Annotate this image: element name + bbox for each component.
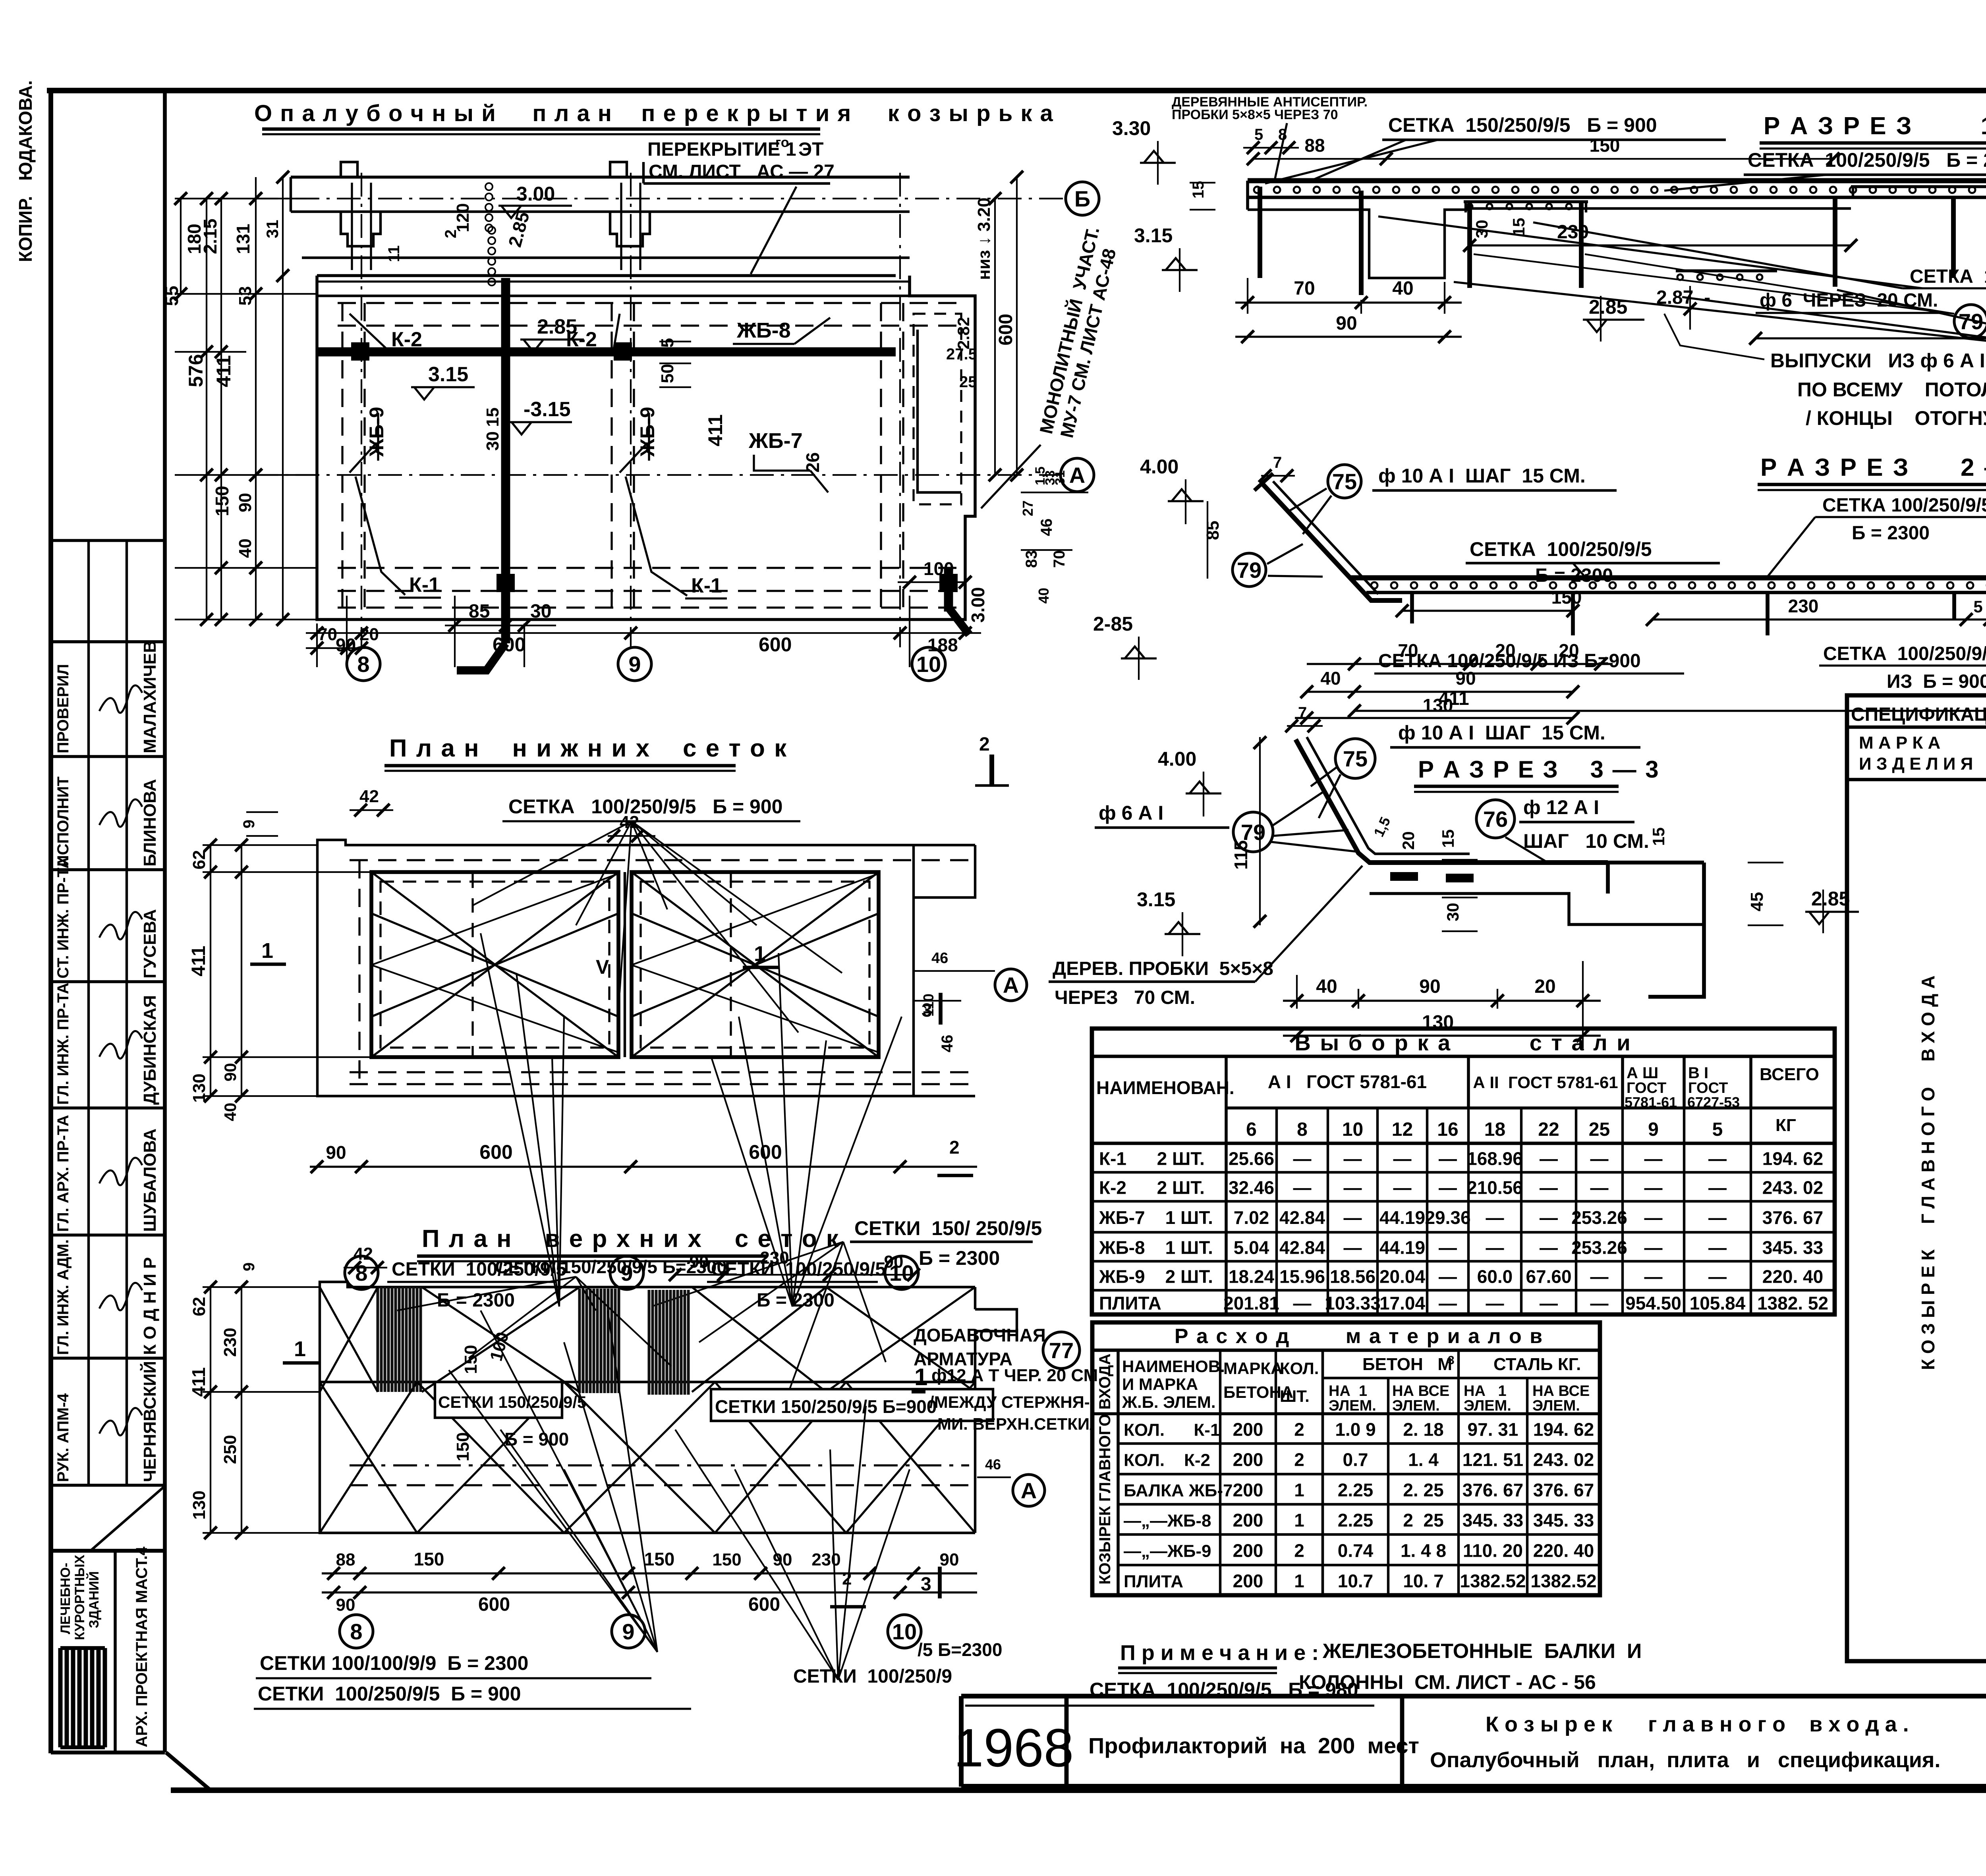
svg-text:2.85: 2.85: [1811, 888, 1850, 910]
grid axis A horizontal: [254, 474, 1059, 476]
svg-text:НА ВСЕ: НА ВСЕ: [1532, 1383, 1590, 1399]
sec2 dims 40 90: [1307, 691, 1573, 693]
svg-text:Б = 900: Б = 900: [504, 1429, 569, 1449]
bottom small dims 70 20: [316, 623, 318, 667]
svg-text:120: 120: [453, 203, 473, 232]
svg-text:ЭЛЕМ.: ЭЛЕМ.: [1392, 1397, 1440, 1414]
upper right step outline: [975, 1309, 1017, 1533]
svg-text:18.56: 18.56: [1330, 1266, 1376, 1287]
svg-text:/5 Б=2300: /5 Б=2300: [918, 1639, 1002, 1660]
svg-text:70: 70: [1051, 550, 1068, 568]
svg-text:А: А: [1021, 1478, 1037, 1503]
svg-text:194. 62: 194. 62: [1762, 1148, 1823, 1169]
svg-text:22: 22: [1538, 1119, 1559, 1140]
grid axis B horizontal: [254, 198, 1065, 199]
svg-text:42.84: 42.84: [1279, 1207, 1325, 1228]
svg-text:46: 46: [931, 950, 948, 967]
sidebar empty signature band: [51, 539, 165, 542]
floor band lower edge: [317, 274, 896, 277]
slab soffit ledge with notch: [1248, 210, 1468, 278]
svg-text:7: 7: [1273, 454, 1282, 471]
svg-text:1: 1: [914, 1364, 927, 1390]
svg-text:10: 10: [892, 1619, 917, 1644]
svg-text:8: 8: [1297, 1119, 1308, 1140]
svg-text:90: 90: [690, 1252, 709, 1272]
svg-text:345. 33: 345. 33: [1762, 1237, 1823, 1258]
svg-text:121. 51: 121. 51: [1462, 1449, 1523, 1470]
svg-text:—: —: [1540, 1148, 1558, 1169]
svg-text:—: —: [1486, 1207, 1504, 1228]
beam ZhB-8 dashed band top: [338, 302, 965, 304]
svg-text:—: —: [1344, 1207, 1362, 1228]
upper plan left ties: [203, 1286, 320, 1288]
svg-text:8: 8: [357, 652, 369, 677]
svg-text:КОПИР. ЮДАКОВА.: КОПИР. ЮДАКОВА.: [15, 80, 36, 262]
svg-text:—: —: [1590, 1266, 1609, 1287]
grid bubble 10: [912, 647, 945, 681]
svg-text:Р а с х о д м а т е р и: Р а с х о д м а т е р и а л о в: [1175, 1325, 1544, 1348]
svg-text:НА ВСЕ: НА ВСЕ: [1392, 1383, 1449, 1399]
svg-text:600: 600: [995, 314, 1016, 345]
svg-text:954.50: 954.50: [1625, 1293, 1681, 1314]
svg-text:600: 600: [759, 633, 792, 656]
svg-text:МАРКА: МАРКА: [1223, 1359, 1283, 1378]
svg-text:30: 30: [1443, 903, 1462, 921]
svg-text:—: —: [1439, 1148, 1457, 1169]
left horizontal tie lines: [175, 198, 318, 199]
svg-text:150: 150: [414, 1549, 444, 1569]
svg-text:СЕТКА 100/250/9/5: СЕТКА 100/250/9/5: [1822, 495, 1986, 516]
svg-text:—: —: [1590, 1177, 1609, 1198]
svg-text:1: 1: [1294, 1510, 1304, 1531]
grid axis 9: [630, 173, 632, 647]
dim 88 and 150 above section: [1253, 158, 1835, 160]
svg-text:150: 150: [1551, 587, 1582, 608]
svg-text:3.15: 3.15: [1137, 888, 1175, 911]
bubble 79 section1: [1474, 254, 1954, 314]
svg-text:ЛЕЧЕБНО-: ЛЕЧЕБНО-: [58, 1563, 73, 1634]
svg-text:—: —: [1486, 1293, 1504, 1314]
svg-text:СЕТКА 100/250/9/5: СЕТКА 100/250/9/5: [1910, 266, 1986, 287]
raskhod header: [1219, 1350, 1221, 1595]
svg-text:СЕТКИ 100/250/9: СЕТКИ 100/250/9: [793, 1666, 952, 1687]
svg-text:МАЛАХИЧЕВ: МАЛАХИЧЕВ: [140, 640, 160, 753]
svg-text:3.00: 3.00: [968, 587, 988, 623]
svg-text:376. 67: 376. 67: [1533, 1480, 1594, 1500]
svg-text:ПЛИТА: ПЛИТА: [1124, 1572, 1183, 1591]
svg-text:—: —: [1344, 1148, 1362, 1169]
svg-text:—: —: [1708, 1207, 1727, 1228]
svg-text:15: 15: [1439, 829, 1457, 848]
section mark A circle upper plan: [1013, 1475, 1045, 1506]
svg-text:КОЛ. К-2: КОЛ. К-2: [1124, 1451, 1210, 1470]
svg-text:Р А З Р Е З 2 — 2: Р А З Р Е З 2 — 2: [1760, 454, 1986, 481]
column notch at axis 9: [610, 162, 627, 177]
svg-text:НА 1: НА 1: [1464, 1383, 1507, 1399]
hatch block 2: [580, 1289, 619, 1393]
svg-text:ГЛ. АРХ. ПР-ТА: ГЛ. АРХ. ПР-ТА: [54, 1115, 72, 1232]
svg-text:75: 75: [1332, 469, 1357, 494]
svg-text:88: 88: [336, 1550, 355, 1569]
fan from upper setki label: [397, 1277, 576, 1310]
svg-text:4.00: 4.00: [1140, 455, 1178, 478]
svg-text:411: 411: [704, 414, 726, 446]
svg-text:85: 85: [1203, 521, 1223, 540]
svg-text:25: 25: [1589, 1119, 1610, 1140]
mesh panel 1 lower: [371, 872, 618, 1057]
hatch block 1: [378, 1287, 421, 1392]
column fill right bottom: [939, 574, 958, 592]
svg-text:ГУСЕВА: ГУСЕВА: [140, 909, 160, 979]
svg-text:ВЫПУСКИ ИЗ ф 6 А I ЧЕРЕЗ: ВЫПУСКИ ИЗ ф 6 А I ЧЕРЕЗ 70 СМ.: [1770, 349, 1986, 372]
svg-text:60.0: 60.0: [1477, 1266, 1513, 1287]
svg-text:50: 50: [658, 364, 677, 383]
svg-text:32.46: 32.46: [1229, 1177, 1274, 1198]
svg-text:Б: Б: [1074, 186, 1090, 211]
column notch at axis 8: [341, 162, 357, 177]
svg-text:ЖБ-9: ЖБ-9: [365, 407, 388, 457]
svg-text:11: 11: [385, 245, 403, 262]
svg-text:—: —: [1540, 1293, 1558, 1314]
svg-text:1968: 1968: [954, 1718, 1074, 1778]
svg-text:600: 600: [479, 1141, 512, 1163]
slab top inner line: [317, 295, 910, 297]
svg-text:18: 18: [1484, 1119, 1505, 1140]
svg-text:576: 576: [185, 354, 207, 387]
svg-text:ЖБ-8 1 ШТ.: ЖБ-8 1 ШТ.: [1099, 1237, 1213, 1258]
section 1-1 below-dims 70 40: [1247, 278, 1248, 314]
svg-text:—: —: [1439, 1237, 1457, 1258]
svg-text:Б = 2300: Б = 2300: [919, 1247, 1000, 1269]
svg-text:1: 1: [261, 939, 273, 963]
svg-text:230: 230: [220, 1328, 240, 1357]
svg-text:8: 8: [1278, 126, 1287, 143]
svg-text:200: 200: [1233, 1571, 1263, 1591]
svg-text:10. 7: 10. 7: [1403, 1571, 1443, 1591]
bar lower flange: [1370, 894, 1704, 924]
bubble 75 sec3: [1335, 739, 1375, 778]
svg-text:СЕТКА 100/250/9/5 Б = 2300: СЕТКА 100/250/9/5 Б = 2300: [1748, 149, 1986, 171]
svg-text:2: 2: [1294, 1449, 1304, 1470]
svg-text:85: 85: [469, 601, 490, 622]
svg-text:ИСПОЛНИТ: ИСПОЛНИТ: [54, 776, 72, 867]
svg-text:1382.52: 1382.52: [1530, 1571, 1596, 1591]
svg-text:411: 411: [213, 355, 235, 387]
svg-text:—: —: [1439, 1266, 1457, 1287]
svg-text:И МАРКА: И МАРКА: [1122, 1375, 1198, 1393]
svg-text:А Ш: А Ш: [1627, 1064, 1658, 1082]
svg-text:—: —: [1708, 1148, 1727, 1169]
svg-text:ЭТ: ЭТ: [798, 139, 823, 160]
hatch block 3: [649, 1290, 688, 1395]
svg-text:НАИМЕНОВ.: НАИМЕНОВ.: [1122, 1357, 1225, 1376]
svg-text:16: 16: [1437, 1119, 1458, 1140]
svg-text:Опалубочный план, плита и: Опалубочный план, плита и спецификация.: [1430, 1748, 1940, 1772]
section 2-2 slab band: [1350, 575, 1986, 581]
svg-text:130: 130: [189, 1073, 209, 1102]
svg-text:9: 9: [240, 1262, 258, 1271]
existing floor band outline: [291, 176, 910, 179]
svg-text:БЛИНОВА: БЛИНОВА: [140, 779, 160, 867]
svg-text:ЭЛЕМ.: ЭЛЕМ.: [1532, 1397, 1580, 1414]
svg-text:200: 200: [1233, 1510, 1263, 1531]
column side lines axis 8: [351, 183, 353, 270]
svg-text:ПРОВЕРИЛ: ПРОВЕРИЛ: [54, 664, 72, 753]
sec2 rebar drops: [1410, 593, 1414, 623]
svg-text:Б = 2300: Б = 2300: [1852, 523, 1930, 544]
svg-text:—: —: [1293, 1148, 1312, 1169]
svg-text:83: 83: [1023, 550, 1040, 568]
svg-text:1. 4 8: 1. 4 8: [1401, 1540, 1446, 1561]
svg-text:2-85: 2-85: [1093, 613, 1133, 635]
svg-text:105.84: 105.84: [1690, 1293, 1746, 1314]
svg-text:СЕТКА 100/250/9/5 Б = 900: СЕТКА 100/250/9/5 Б = 900: [508, 795, 782, 818]
svg-text:—: —: [1644, 1207, 1663, 1228]
svg-text:—: —: [1344, 1237, 1362, 1258]
svg-text:345. 33: 345. 33: [1462, 1510, 1523, 1531]
svg-text:40: 40: [1392, 278, 1413, 299]
sidebar org block: [51, 1549, 165, 1553]
svg-text:КУРОРТНЫХ: КУРОРТНЫХ: [72, 1555, 87, 1640]
svg-text:9: 9: [240, 820, 258, 828]
upper bottom dims row1: [322, 1572, 977, 1574]
svg-text:—: —: [1439, 1177, 1457, 1198]
svg-text:3.15: 3.15: [1134, 224, 1173, 247]
raskhod outer frame: [1092, 1322, 1600, 1595]
svg-text:го: го: [775, 135, 789, 150]
svg-text:БАЛКА ЖБ-7: БАЛКА ЖБ-7: [1124, 1481, 1233, 1500]
sidebar right border: [163, 91, 167, 1752]
svg-text:31: 31: [1053, 470, 1068, 485]
svg-text:Ж.Б. ЭЛЕМ.: Ж.Б. ЭЛЕМ.: [1122, 1393, 1216, 1411]
svg-text:Профилакторий на 200 мест: Профилакторий на 200 мест: [1088, 1733, 1419, 1758]
svg-text:15.96: 15.96: [1279, 1266, 1325, 1287]
svg-text:131: 131: [233, 224, 253, 254]
svg-text:7.02: 7.02: [1234, 1207, 1269, 1228]
svg-text:КОЛОННЫ СМ. ЛИСТ - АС - 56: КОЛОННЫ СМ. ЛИСТ - АС - 56: [1299, 1671, 1596, 1693]
svg-text:ЖБ-7 1 ШТ.: ЖБ-7 1 ШТ.: [1099, 1207, 1213, 1228]
upper plan outline: [320, 1282, 975, 1309]
svg-text:ДОБАВОЧНАЯ: ДОБАВОЧНАЯ: [914, 1325, 1046, 1345]
upper top dims 90 230 90: [675, 1274, 914, 1276]
svg-text:МИ. ВЕРХН.СЕТКИ/: МИ. ВЕРХН.СЕТКИ/: [937, 1415, 1094, 1433]
svg-text:—: —: [1644, 1237, 1663, 1258]
svg-text:2: 2: [842, 1569, 852, 1588]
svg-text:—: —: [1344, 1177, 1362, 1198]
phi12 bar step: [1606, 863, 1610, 894]
svg-text:201.81: 201.81: [1223, 1293, 1279, 1314]
svg-text:27: 27: [1020, 500, 1036, 516]
svg-text:200: 200: [1233, 1480, 1263, 1500]
panel dashed verticals: [471, 874, 473, 1056]
svg-text:3.00: 3.00: [516, 183, 555, 205]
section mark 2 top: [989, 755, 994, 784]
svg-text:—: —: [1486, 1237, 1504, 1258]
svg-text:30: 30: [530, 601, 551, 622]
grid bubble B: [1066, 182, 1099, 215]
sec3 bottom dims 40 90 20: [1296, 975, 1298, 1009]
left dim mid ticks: [200, 469, 213, 481]
svg-text:30: 30: [483, 431, 502, 451]
svg-text:79: 79: [1237, 558, 1262, 583]
stair dots column: [485, 183, 493, 190]
svg-text:Б = 2300: Б = 2300: [1535, 565, 1613, 586]
svg-text:—„—ЖБ-8: —„—ЖБ-8: [1124, 1511, 1211, 1531]
svg-text:200: 200: [1233, 1419, 1263, 1440]
svg-text:90: 90: [336, 635, 356, 655]
upper plan left dims: [210, 1287, 211, 1533]
svg-text:150: 150: [644, 1549, 675, 1569]
svg-text:8: 8: [350, 1619, 362, 1644]
svg-text:25: 25: [959, 373, 977, 391]
svg-text:Р А З Р Е З 3 — 3: Р А З Р Е З 3 — 3: [1418, 756, 1660, 783]
svg-text:АРХ. ПРОЕКТНАЯ МАСТ.4: АРХ. ПРОЕКТНАЯ МАСТ.4: [133, 1546, 151, 1747]
svg-text:10: 10: [1342, 1119, 1363, 1140]
svg-text:—: —: [1293, 1293, 1312, 1314]
svg-text:411: 411: [188, 946, 209, 976]
svg-text:2. 18: 2. 18: [1403, 1419, 1443, 1440]
beam ZhB-9 vertical dashed at axis8: [341, 303, 343, 608]
svg-text:—: —: [1293, 1177, 1312, 1198]
svg-text:КОЗЫРЕК ГЛАВНОГО ВХОДА: КОЗЫРЕК ГЛАВНОГО ВХОДА: [1096, 1353, 1114, 1585]
svg-text:КГ: КГ: [1775, 1116, 1796, 1135]
svg-text:210.56: 210.56: [1467, 1177, 1523, 1198]
svg-text:—: —: [1590, 1293, 1609, 1314]
svg-text:194. 62: 194. 62: [1533, 1419, 1594, 1440]
svg-text:ф 6 А I: ф 6 А I: [1099, 802, 1163, 824]
svg-text:НА 1: НА 1: [1329, 1383, 1367, 1399]
svg-text:1: 1: [1294, 1480, 1304, 1500]
svg-text:—: —: [1439, 1293, 1457, 1314]
svg-text:РУК. АПМ-4: РУК. АПМ-4: [54, 1393, 72, 1482]
svg-text:150: 150: [712, 1550, 741, 1569]
lower plan bottom dim: [310, 1166, 977, 1168]
svg-text:ГЛ. ИНЖ. АДМ.: ГЛ. ИНЖ. АДМ.: [54, 1239, 72, 1355]
svg-text:А I ГОСТ 5781-61: А I ГОСТ 5781-61: [1268, 1071, 1427, 1092]
svg-text:6727-53: 6727-53: [1687, 1094, 1740, 1110]
svg-text:42: 42: [354, 1244, 373, 1264]
upper mesh hat 2 (over beam): [1851, 185, 1986, 188]
sec2 left bottom dims 70 20 20: [1307, 663, 1613, 665]
svg-text:2.82: 2.82: [954, 317, 973, 349]
svg-text:К О Д Н И Р: К О Д Н И Р: [140, 1257, 160, 1355]
svg-text:ЖБ-7: ЖБ-7: [748, 429, 803, 453]
svg-text:СЕТКА 100/250/9/5 ИЗ Б=900: СЕТКА 100/250/9/5 ИЗ Б=900: [1378, 650, 1641, 672]
left dim top ticks: [174, 192, 187, 205]
svg-text:ПО ВСЕМУ ПОТОЛКУ КОЗЫРЬК: ПО ВСЕМУ ПОТОЛКУ КОЗЫРЬКА: [1797, 378, 1986, 401]
svg-text:103.33: 103.33: [1325, 1293, 1381, 1314]
svg-text:К-1: К-1: [409, 573, 440, 596]
svg-text:В I: В I: [1688, 1064, 1708, 1082]
svg-text:5: 5: [1973, 597, 1982, 616]
svg-text:90: 90: [773, 1550, 792, 1569]
svg-text:46: 46: [985, 1456, 1001, 1473]
svg-text:1: 1: [294, 1337, 306, 1361]
svg-text:А: А: [1003, 973, 1019, 998]
sec3 dim 130: [1283, 1035, 1601, 1036]
svg-text:29.36: 29.36: [1425, 1207, 1470, 1228]
svg-text:90: 90: [221, 1063, 240, 1082]
svg-text:90: 90: [1419, 976, 1440, 997]
svg-text:2: 2: [979, 734, 990, 755]
svg-text:67.60: 67.60: [1526, 1266, 1571, 1287]
svg-text:К о з ы р е к г л а в н о: К о з ы р е к г л а в н о г о в х о д а …: [1486, 1712, 1909, 1736]
svg-text:В ы б о р к а с т а л: В ы б о р к а с т а л и: [1294, 1030, 1632, 1055]
bottom dim 100 box: [909, 596, 910, 667]
svg-text:9: 9: [622, 1619, 634, 1644]
svg-text:ГЛ. ИНЖ. ПР-ТА: ГЛ. ИНЖ. ПР-ТА: [54, 982, 72, 1105]
svg-text:42: 42: [359, 787, 379, 806]
sheet outer frame left: [48, 91, 53, 1753]
svg-text:НАИМЕНОВАН.: НАИМЕНОВАН.: [1096, 1077, 1234, 1098]
sheet outer frame top: [47, 88, 1986, 93]
svg-text:ШУБАЛОВА: ШУБАЛОВА: [140, 1129, 160, 1232]
svg-text:90: 90: [236, 493, 255, 512]
svg-text:СЕТКА 150/250/9/5 Б = 900: СЕТКА 150/250/9/5 Б = 900: [1388, 114, 1657, 136]
svg-text:2: 2: [1294, 1419, 1304, 1440]
svg-text:90: 90: [1336, 313, 1357, 334]
svg-text:2.25: 2.25: [1338, 1480, 1374, 1500]
svg-text:V: V: [596, 956, 609, 978]
svg-text:ЖБ-8: ЖБ-8: [736, 318, 791, 342]
svg-text:ф 10 А I ШАГ 15 СМ.: ф 10 А I ШАГ 15 СМ.: [1378, 465, 1586, 487]
svg-text:А II ГОСТ 5781-61: А II ГОСТ 5781-61: [1473, 1073, 1618, 1092]
svg-text:СМ. ЛИСТ АС — 27: СМ. ЛИСТ АС — 27: [649, 161, 835, 182]
svg-text:—: —: [1393, 1148, 1412, 1169]
svg-text:—: —: [1708, 1266, 1727, 1287]
svg-text:12: 12: [1392, 1119, 1413, 1140]
column side lines axis 9: [620, 183, 622, 270]
grid axis 10: [899, 173, 901, 647]
vyborka outer frame: [1092, 1029, 1835, 1314]
svg-text:17.04: 17.04: [1379, 1293, 1426, 1314]
svg-text:ДЕРЕВ. ПРОБКИ 5×5×8: ДЕРЕВ. ПРОБКИ 5×5×8: [1053, 958, 1273, 979]
svg-text:188: 188: [927, 635, 958, 655]
grid bubble 8: [347, 647, 380, 681]
svg-text:СЕТКИ 150/250/9/5: СЕТКИ 150/250/9/5: [438, 1393, 586, 1411]
svg-text:ЖБ-9: ЖБ-9: [636, 407, 659, 457]
svg-text:15: 15: [1190, 181, 1207, 199]
vertical dashed near axis10: [880, 303, 882, 608]
svg-text:46: 46: [939, 1035, 956, 1053]
svg-text:ПРОБКИ 5×8×5 ЧЕРЕЗ 70: ПРОБКИ 5×8×5 ЧЕРЕЗ 70: [1172, 107, 1338, 122]
svg-text:СЕТКА 100/250/9/5: СЕТКА 100/250/9/5: [1470, 538, 1652, 560]
svg-text:200: 200: [1233, 1449, 1263, 1470]
svg-text:40: 40: [236, 538, 255, 558]
svg-text:15: 15: [483, 407, 502, 427]
svg-text:90: 90: [336, 1595, 355, 1615]
svg-text:ЖБ-9 2 ШТ.: ЖБ-9 2 ШТ.: [1099, 1266, 1213, 1287]
svg-text:СЕТКИ 150/ 250/9/5: СЕТКИ 150/ 250/9/5: [854, 1217, 1042, 1239]
svg-text:—: —: [1708, 1237, 1727, 1258]
bubble 76 sec3: [1476, 800, 1515, 838]
svg-text:230: 230: [1788, 596, 1819, 616]
upper plan bubbles: [340, 1615, 373, 1648]
slab outline: [317, 276, 975, 620]
svg-text:1: 1: [1294, 1571, 1304, 1591]
svg-text:ЧЕРНЯВСКИЙ: ЧЕРНЯВСКИЙ: [139, 1361, 160, 1482]
svg-text:СТАЛЬ КГ.: СТАЛЬ КГ.: [1493, 1355, 1581, 1374]
svg-text:150: 150: [461, 1345, 481, 1374]
svg-text:40: 40: [1036, 588, 1052, 604]
svg-text:СЕТКИ 150/250/9/5 Б=900: СЕТКИ 150/250/9/5 Б=900: [715, 1396, 937, 1417]
svg-text:40: 40: [1316, 976, 1337, 997]
svg-text:СЕТКИ 100/250/9/5 Б = 900: СЕТКИ 100/250/9/5 Б = 900: [258, 1683, 521, 1705]
svg-text:—: —: [1540, 1207, 1558, 1228]
grid bubble 9: [618, 647, 651, 681]
svg-text:10.7: 10.7: [1338, 1571, 1374, 1591]
svg-text:КОЛ. К-1: КОЛ. К-1: [1124, 1421, 1220, 1440]
